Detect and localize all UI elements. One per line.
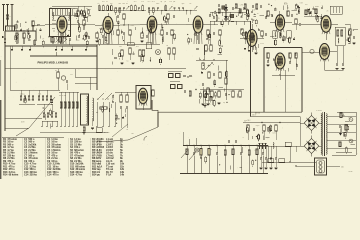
wire switch verticals bbox=[20, 90, 22, 96]
scatter V2 area bbox=[142, 27, 144, 32]
resistor column right of V1 bbox=[77, 11, 79, 16]
scatter switch bank bbox=[51, 99, 53, 102]
wire heater line y122.5 bbox=[243, 122, 300, 124]
oscillator trimmers below V1 bbox=[51, 37, 53, 42]
decoupling parts bbox=[247, 125, 249, 131]
svg-text:o 98.2: o 98.2 bbox=[246, 120, 251, 122]
svg-text:C31: C31 bbox=[70, 74, 73, 76]
V5 pin fan bbox=[247, 45, 250, 50]
scatter V3 area bbox=[191, 39, 193, 43]
wire HT line y116.5 bbox=[251, 116, 301, 118]
packed component row above V2 bbox=[99, 10, 146, 12]
wire AF row y60 bbox=[196, 59, 228, 61]
ladder grounds bbox=[60, 125, 62, 127]
wire mains risers bbox=[289, 146, 291, 162]
V3 screen parts bbox=[161, 30, 163, 35]
antenna coupling coil bbox=[6, 15, 9, 19]
secondary panel box bbox=[337, 111, 356, 113]
svg-text:2R2: 2R2 bbox=[131, 133, 134, 135]
svg-text:gd 90d: gd 90d bbox=[255, 113, 260, 115]
left bus small parts bbox=[2, 36, 4, 38]
tube V2 EF89 first IF bbox=[103, 17, 113, 36]
ferrite coil box bbox=[81, 94, 89, 125]
svg-text:o: o bbox=[10, 16, 11, 18]
svg-text:7d: 7d bbox=[268, 127, 270, 129]
FM input parts bbox=[267, 11, 269, 16]
transformer core bbox=[322, 112, 324, 156]
svg-text:3Vp: 3Vp bbox=[284, 2, 287, 4]
paper background bbox=[0, 0, 360, 179]
tube EM34 tuning indicator bbox=[138, 88, 147, 105]
wire bus y56 bbox=[30, 55, 97, 57]
switch arm diagonal bbox=[16, 97, 55, 136]
svg-text:23: 23 bbox=[326, 10, 328, 12]
svg-text:R3: R3 bbox=[189, 3, 191, 5]
tube V6 ECC85 FM bbox=[275, 15, 284, 32]
EM34 shield box bbox=[136, 86, 151, 110]
diagonal callout 2 bbox=[112, 124, 128, 137]
wire V6 connections bbox=[270, 22, 275, 24]
mains left cap cluster bbox=[259, 143, 261, 149]
svg-text:opn: opn bbox=[207, 49, 210, 51]
tube V1 ECH81 converter bbox=[57, 16, 67, 35]
svg-text:14k: 14k bbox=[120, 173, 125, 177]
tube V7 EF89 FM IF bbox=[321, 16, 331, 34]
lamp circles on network bbox=[195, 148, 199, 152]
svg-text:R6: R6 bbox=[146, 30, 148, 32]
svg-text:k5n: k5n bbox=[110, 3, 113, 5]
FM corner parts bbox=[305, 10, 307, 15]
svg-text:47k 22 1M: 47k 22 1M bbox=[59, 95, 67, 97]
power section box outline bbox=[264, 47, 302, 49]
svg-text:35: 35 bbox=[21, 93, 23, 95]
wire bottom bus y145.5 bbox=[183, 145, 268, 147]
EM34 side part bbox=[152, 90, 154, 96]
scatter right edge bbox=[354, 28, 358, 30]
output stage lower resistors bbox=[204, 91, 206, 97]
tube V8 EL84 output bbox=[275, 53, 285, 71]
wire V8 down to box bottom bbox=[285, 70, 287, 112]
dial lamp 1 bbox=[349, 118, 353, 122]
svg-text:o6: o6 bbox=[138, 56, 140, 58]
svg-text:R14 68 kohm: R14 68 kohm bbox=[3, 173, 19, 177]
svg-text:u47: u47 bbox=[305, 4, 308, 6]
tube V5 AF preamp triode bbox=[247, 30, 257, 49]
transformer primary winding bbox=[321, 114, 322, 155]
svg-text:F 1A: F 1A bbox=[106, 173, 111, 177]
scatter V1 area bbox=[52, 38, 54, 42]
AF lower parts bbox=[202, 83, 204, 85]
svg-text:R2: R2 bbox=[73, 8, 75, 10]
fuse box 1 bbox=[268, 159, 274, 163]
svg-text:C 90-18: C 90-18 bbox=[316, 110, 322, 112]
svg-text:C4: C4 bbox=[287, 7, 289, 9]
wire AVC bus y46 bbox=[5, 45, 97, 47]
transformer taps ladder bbox=[327, 115, 356, 117]
V4 anode parts bbox=[207, 30, 209, 35]
stub row above table bbox=[41, 121, 43, 126]
V9 left cap circle bbox=[310, 49, 314, 53]
lower mid parts bbox=[184, 90, 186, 92]
scatter FM below bbox=[275, 35, 276, 36]
cap pair x121 bbox=[120, 95, 122, 102]
wire bridge connections bbox=[299, 117, 301, 147]
V3 cathode parts bbox=[141, 33, 143, 38]
V3 anode parts bbox=[167, 14, 169, 19]
wire y132 run bbox=[40, 132, 108, 134]
coil box L1 bbox=[6, 26, 15, 31]
dial lamp 2 bbox=[349, 139, 353, 143]
svg-text:R21: R21 bbox=[136, 46, 139, 48]
AVC bus caps bbox=[11, 46, 13, 49]
V5 grid parts bbox=[241, 29, 243, 34]
wire y83 segment bbox=[75, 83, 97, 85]
AF takeoff parts below y69 bbox=[57, 72, 59, 78]
scatter mid cluster bbox=[124, 114, 126, 117]
svg-text:C41: C41 bbox=[119, 46, 122, 48]
callout line to parts list bbox=[96, 140, 128, 142]
svg-text:31k: 31k bbox=[141, 1, 144, 3]
svg-text:ku: ku bbox=[127, 60, 129, 62]
V5 under parts bbox=[244, 48, 246, 50]
svg-text:C14 470 o: C14 470 o bbox=[47, 173, 59, 177]
resistor pair x170 bbox=[168, 48, 170, 54]
svg-text:up: up bbox=[159, 33, 161, 35]
svg-text:V82: V82 bbox=[50, 37, 53, 39]
svg-text:1 mA: 1 mA bbox=[206, 103, 211, 106]
V2 screen parts bbox=[117, 30, 119, 35]
diode D1 bbox=[224, 7, 228, 10]
scatter AF chain bbox=[204, 51, 206, 55]
V7 side can bbox=[335, 27, 345, 45]
wire top right bus bbox=[292, 23, 316, 25]
wire plug leads bbox=[310, 161, 316, 163]
wire V8 bottom bbox=[279, 69, 281, 80]
wire left bus vertical bbox=[4, 31, 6, 131]
can interior marks bbox=[52, 19, 56, 21]
wire ground bus bbox=[180, 173, 268, 175]
svg-text:R9: R9 bbox=[55, 70, 57, 72]
svg-text:kL: kL bbox=[106, 1, 108, 3]
wire AF vertical x226 bbox=[225, 60, 227, 100]
right edge parts bbox=[349, 29, 351, 35]
svg-text:B14 pu: B14 pu bbox=[92, 173, 100, 177]
svg-text:VC3: VC3 bbox=[152, 1, 155, 3]
small box x146 bbox=[146, 43, 152, 49]
svg-text:p4: p4 bbox=[164, 1, 166, 3]
svg-text:p3nF: p3nF bbox=[101, 24, 105, 26]
svg-text:CV8: CV8 bbox=[300, 3, 303, 5]
svg-text:VV7: VV7 bbox=[148, 1, 151, 3]
left edge dark strip bbox=[0, 100, 1, 179]
svg-text:2kV8: 2kV8 bbox=[21, 121, 25, 123]
wire V1 pins bbox=[61, 33, 63, 44]
svg-text:T9.06: T9.06 bbox=[348, 171, 352, 173]
ground dots bbox=[186, 173, 187, 174]
svg-text:up: up bbox=[160, 1, 162, 3]
V5 plate parts bbox=[261, 31, 263, 36]
resistor cluster y50 bbox=[121, 50, 123, 56]
svg-text:8V8: 8V8 bbox=[106, 41, 109, 43]
wire detector rows bbox=[210, 11, 246, 13]
mixer grid parts bbox=[32, 21, 34, 26]
svg-text:S14 4.7 ko: S14 4.7 ko bbox=[70, 173, 83, 177]
wire mains y162 bbox=[262, 161, 316, 163]
wire lower mid bus bbox=[200, 89, 244, 91]
svg-text:u768: u768 bbox=[240, 4, 244, 6]
svg-text:62pn: 62pn bbox=[254, 150, 258, 152]
mains plug connector bbox=[315, 158, 327, 175]
coil L5 inside can bbox=[52, 12, 55, 20]
band switch row1 group2 bbox=[38, 96, 40, 100]
wire V4 connections bbox=[186, 24, 193, 26]
PSU caps right bbox=[339, 125, 341, 127]
AF top caps bbox=[196, 48, 198, 50]
FM coil cans below V6 bbox=[273, 31, 278, 39]
detector dark marks bbox=[222, 6, 225, 10]
wire step down x158 bbox=[157, 112, 159, 127]
svg-text:7u: 7u bbox=[282, 16, 284, 18]
caps above bus bbox=[228, 140, 230, 142]
svg-text:2n: 2n bbox=[200, 32, 202, 34]
scatter mid left bbox=[112, 62, 114, 65]
rectifier bridge B2 bbox=[304, 139, 319, 154]
gram sockets bbox=[171, 85, 176, 89]
wire left mid vertical bbox=[9, 46, 11, 90]
tube pin drop wires bbox=[57, 34, 60, 45]
coil winding B bbox=[93, 98, 94, 121]
detector tick row bbox=[211, 12, 213, 16]
transformer secondary winding bbox=[326, 114, 327, 155]
small box above label bbox=[96, 128, 102, 133]
svg-text:12n1: 12n1 bbox=[272, 132, 276, 134]
svg-text:CL4: CL4 bbox=[169, 1, 172, 3]
svg-text:S2: S2 bbox=[50, 7, 52, 9]
scatter psu feed bbox=[268, 127, 270, 131]
filter box bbox=[285, 142, 291, 147]
wire vertical x250 bbox=[250, 21, 252, 117]
wire V2 connections bbox=[95, 24, 103, 26]
paper speckle noise bbox=[1, 0, 358, 179]
detector RC parts bbox=[218, 4, 220, 6]
scatter V8 area bbox=[281, 63, 282, 64]
V9 ground caps bbox=[336, 46, 338, 63]
wire bus y69 bbox=[5, 68, 186, 70]
table separators bbox=[22, 138, 24, 177]
svg-text:u518: u518 bbox=[57, 31, 61, 33]
mid verticals bbox=[96, 102, 98, 126]
wire link to mains bbox=[267, 146, 269, 163]
PSU resistor right bbox=[340, 113, 342, 118]
parts list header line bbox=[2, 136, 64, 138]
svg-text:RCR2: RCR2 bbox=[29, 100, 33, 102]
svg-text:772: 772 bbox=[348, 117, 351, 119]
svg-text:C72: C72 bbox=[315, 6, 318, 8]
svg-text:21C3: 21C3 bbox=[207, 66, 211, 68]
V8 right parts bbox=[289, 53, 291, 58]
bottom hanging components bbox=[186, 145, 187, 146]
wire socket links bbox=[168, 70, 182, 72]
svg-text:5Lp: 5Lp bbox=[228, 90, 231, 92]
svg-text:646: 646 bbox=[118, 3, 121, 5]
V2 anode load bbox=[123, 14, 125, 19]
wire V9 connections bbox=[302, 51, 320, 53]
wire V3 connections bbox=[140, 24, 147, 26]
AF mid parts bbox=[202, 63, 204, 69]
wire bus y44 bbox=[45, 43, 160, 45]
FM mixer parts bbox=[295, 19, 297, 24]
wire V7 connections bbox=[316, 23, 321, 25]
wire antenna verticals bbox=[3, 9, 5, 31]
svg-text:L8: L8 bbox=[253, 9, 255, 11]
svg-text:Lp5u: Lp5u bbox=[172, 30, 176, 32]
scatter V4 lower bbox=[219, 41, 221, 46]
switch arm bottom bbox=[181, 150, 188, 158]
band switch row2 bbox=[43, 113, 45, 117]
wire PSU right bbox=[339, 129, 341, 134]
coil bottom parts bbox=[83, 127, 85, 131]
switch arm bottom 2 bbox=[189, 152, 196, 160]
IF can box around V1 bbox=[50, 9, 71, 37]
parts list L column bbox=[92, 137, 125, 177]
svg-text:LF: LF bbox=[140, 49, 142, 51]
parts list text block bbox=[3, 137, 86, 177]
scatter psu right bbox=[345, 121, 349, 123]
tube V9 FM discriminator bbox=[320, 44, 330, 62]
rectifier bridge B1 bbox=[304, 116, 319, 131]
filter coil bbox=[272, 143, 275, 149]
scatter under box bbox=[209, 89, 211, 91]
mid vertical contact ends bbox=[96, 125, 98, 127]
svg-text:uF: uF bbox=[257, 13, 259, 15]
wire bottom risers bbox=[188, 139, 190, 146]
bracket right of table bbox=[144, 137, 147, 141]
wire bottom link bbox=[296, 165, 314, 167]
band switch row1 group1 bbox=[20, 96, 22, 100]
coil winding A bbox=[87, 96, 88, 124]
tone caps bbox=[183, 75, 185, 77]
wire detector to AF bbox=[209, 21, 211, 45]
wire vertical x97 bbox=[96, 45, 98, 90]
svg-text:C64: C64 bbox=[294, 9, 297, 11]
tube V3 EF89 second IF bbox=[147, 16, 157, 35]
svg-text:220: 220 bbox=[341, 167, 344, 169]
svg-text:PHILIPS MOD. LX463AB: PHILIPS MOD. LX463AB bbox=[38, 61, 69, 65]
volume pot arm bbox=[205, 62, 213, 70]
V8 left parts bbox=[267, 53, 269, 58]
svg-text:uVpu: uVpu bbox=[256, 125, 260, 127]
switch arms mid bbox=[97, 93, 104, 100]
filter caps to ground bbox=[260, 146, 262, 158]
svg-text:VL33: VL33 bbox=[260, 43, 264, 45]
tube V4 EABC80 detector bbox=[193, 16, 203, 35]
mid contact dots bbox=[97, 98, 98, 99]
wire box bottom line bbox=[152, 100, 302, 112]
tuning gang cluster bbox=[16, 33, 18, 38]
wire V5 connections bbox=[240, 37, 247, 39]
scatter antenna section bbox=[32, 24, 37, 26]
svg-text:5L5: 5L5 bbox=[134, 1, 137, 3]
wire y77 segment bbox=[75, 76, 97, 78]
mid resistor horizontal bbox=[100, 107, 107, 109]
packed component row above V3 bbox=[149, 10, 197, 12]
svg-text:F53: F53 bbox=[102, 1, 105, 3]
ratio det caps bbox=[252, 5, 254, 7]
svg-text:R4: R4 bbox=[86, 8, 88, 10]
svg-text:Lo: Lo bbox=[98, 3, 100, 5]
svg-text:op: op bbox=[223, 102, 225, 104]
PSU diode mark bbox=[339, 133, 342, 136]
wire switch top bus bbox=[10, 89, 60, 91]
mains bus y146 bbox=[258, 145, 300, 147]
svg-text:C14 220 ko: C14 220 ko bbox=[24, 173, 37, 177]
diode D2 bbox=[224, 16, 228, 19]
IF can above V7 bbox=[330, 6, 342, 14]
tuning gang box top bbox=[52, 8, 77, 16]
wire top feed bbox=[52, 5, 92, 7]
wire EM34 down bbox=[142, 104, 144, 110]
V2 cathode parts bbox=[96, 33, 98, 38]
wire intertube connections bbox=[76, 24, 95, 26]
scatter V5 area bbox=[246, 37, 250, 39]
fuse box 2 bbox=[279, 159, 285, 163]
resistor ladder bbox=[60, 92, 62, 126]
neon indicator bbox=[156, 50, 161, 55]
antenna terminals bbox=[3, 5, 5, 10]
pickup sockets bbox=[169, 74, 174, 78]
svg-text:R5: R5 bbox=[126, 3, 128, 5]
wire left low horiz bbox=[5, 117, 42, 119]
